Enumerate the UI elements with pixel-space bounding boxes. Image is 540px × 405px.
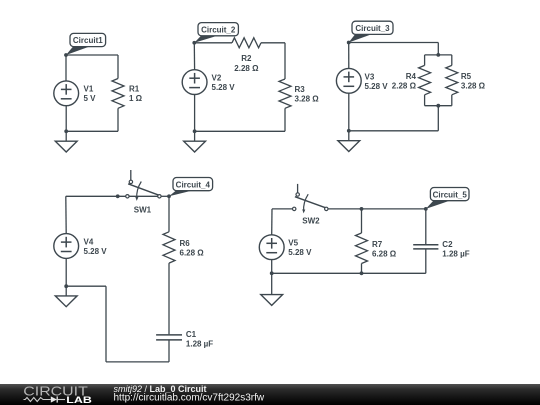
wire R1 top lead <box>117 55 119 79</box>
node N4 (right of SW1, circuit 4) <box>169 190 194 196</box>
resistor R3 <box>279 79 291 108</box>
capacitor C2 <box>413 244 438 246</box>
node dot bottom circuit 2 <box>193 129 197 133</box>
wire bottom of circuit 3 <box>349 130 439 132</box>
svg-text:R6: R6 <box>180 239 191 248</box>
wire R6 top lead <box>168 196 170 232</box>
voltage source V3 <box>336 68 361 93</box>
resistor R1 <box>112 79 124 109</box>
wire C1 bottom lead <box>168 341 170 362</box>
wire C2 top lead <box>425 209 427 244</box>
wire R3 top lead <box>284 43 286 79</box>
node N2 (top of circuit 2) <box>194 35 219 43</box>
switch SW2 contacts <box>293 207 296 210</box>
node dot R7 bottom <box>360 271 364 275</box>
wire R3 bottom lead <box>284 108 286 131</box>
node dot C2 top <box>424 207 428 211</box>
ground circuit 4 <box>65 286 67 296</box>
svg-text:Circuit_5: Circuit_5 <box>433 190 468 199</box>
node N5 (top-right of circuit 5) <box>426 200 452 209</box>
wire top-left of circuit 4 <box>66 195 160 197</box>
svg-text:SW2: SW2 <box>302 216 320 225</box>
node dot top-left circuit 1 <box>64 53 68 57</box>
svg-text:R7: R7 <box>372 240 383 249</box>
wire down to parallel pair <box>437 43 439 55</box>
node dot R7 top <box>360 207 364 211</box>
svg-text:6.28 Ω: 6.28 Ω <box>372 249 397 258</box>
wire bottom of circuit 2 <box>195 130 285 132</box>
wire V1 bottom lead <box>65 106 67 132</box>
svg-text:R2: R2 <box>241 54 252 63</box>
junction dot left of SW1 <box>116 194 120 198</box>
wire parallel bottom rail <box>425 105 452 107</box>
svg-text:6.28 Ω: 6.28 Ω <box>180 248 205 257</box>
wire V5 bottom lead <box>271 260 273 274</box>
node dot parallel top junction <box>436 53 440 57</box>
wire left riser circuit 4 <box>105 286 107 362</box>
wire bottom of circuit 4 <box>106 361 169 363</box>
wire parallel top rail <box>425 54 452 56</box>
wire down from parallel pair <box>437 106 439 131</box>
wire R2 to right corner <box>261 42 285 44</box>
wire R4 top lead <box>424 55 426 66</box>
wire V3 bottom lead <box>348 93 350 131</box>
ground circuit 3 <box>348 131 350 141</box>
ground circuit 2 <box>194 131 196 141</box>
switch SW2 lever <box>295 197 326 208</box>
switch SW2 actuation arc <box>304 194 309 211</box>
svg-text:2.28 Ω: 2.28 Ω <box>234 64 259 73</box>
switch SW1 top throw stub <box>130 170 132 180</box>
resistor R6 <box>163 232 175 263</box>
wire node to R2 <box>194 42 232 44</box>
switch SW1 lever <box>128 184 159 195</box>
wire SW1 to node <box>159 195 169 197</box>
wire R7 top lead <box>361 209 363 233</box>
node dot V4 bottom <box>64 284 68 288</box>
svg-text:R4: R4 <box>406 72 417 81</box>
node N1 (top of circuit 1) <box>66 46 91 55</box>
wire top of circuit 1 <box>66 54 118 56</box>
wire top of circuit 3 <box>349 42 439 44</box>
switch SW2 top throw stub <box>297 184 299 193</box>
svg-text:Circuit_3: Circuit_3 <box>355 24 390 33</box>
resistor R7 <box>356 233 368 264</box>
svg-text:1.28 µF: 1.28 µF <box>442 250 469 259</box>
svg-text:3.28 Ω: 3.28 Ω <box>295 95 320 104</box>
svg-text:5.28 V: 5.28 V <box>365 82 389 91</box>
svg-text:SW1: SW1 <box>134 205 152 214</box>
node dot top-left circuit 2 <box>192 41 196 45</box>
switch SW1 contacts <box>126 195 129 198</box>
node dot V5 bottom <box>270 271 274 275</box>
svg-text:V5: V5 <box>288 239 298 248</box>
svg-text:5 V: 5 V <box>84 94 97 103</box>
svg-text:1 Ω: 1 Ω <box>129 94 143 103</box>
svg-text:C2: C2 <box>442 240 453 249</box>
wire R5 top lead <box>451 55 453 66</box>
wire R4 bottom lead <box>424 95 426 106</box>
wire V4 bottom lead <box>65 258 67 286</box>
svg-text:Circuit_2: Circuit_2 <box>201 25 236 34</box>
wire C2 bottom lead <box>425 250 427 274</box>
wire V5 top lead <box>271 209 273 235</box>
wire R7 bottom lead <box>361 264 363 274</box>
svg-text:3.28 Ω: 3.28 Ω <box>461 81 486 90</box>
resistor R2 <box>232 38 261 48</box>
node N3 (top of circuit 3) <box>349 34 373 43</box>
voltage source V1 <box>54 81 79 106</box>
wire R1 bottom lead <box>117 108 119 131</box>
ground circuit 5 <box>271 273 273 294</box>
node dot right of SW1 <box>167 194 171 198</box>
svg-text:R3: R3 <box>295 85 306 94</box>
voltage source V5 <box>259 235 284 260</box>
wire bottom of circuit 5 <box>272 272 426 274</box>
wire V2 bottom lead <box>194 95 196 132</box>
svg-text:1.28 µF: 1.28 µF <box>186 340 213 349</box>
wire bottom of circuit 1 <box>66 130 118 132</box>
resistor R5 <box>446 65 458 94</box>
svg-text:C1: C1 <box>186 330 197 339</box>
logo resistor-diode squiggle <box>24 398 51 402</box>
voltage source V4 <box>54 234 79 259</box>
capacitor C1 <box>156 334 182 336</box>
node dot top-left circuit 3 <box>347 41 351 45</box>
wire SW2 to R7/C2 <box>326 208 426 210</box>
voltage source V2 <box>182 70 207 95</box>
svg-text:R5: R5 <box>461 72 472 81</box>
node dot parallel bottom junction <box>436 104 440 108</box>
svg-text:LAB: LAB <box>66 395 92 405</box>
wire R6 to C1 <box>168 263 170 334</box>
svg-text:R1: R1 <box>129 85 140 94</box>
svg-text:http://circuitlab.com/cv7ft292: http://circuitlab.com/cv7ft292s3rfw <box>114 392 265 403</box>
wire V1 top lead <box>65 55 67 81</box>
wire V4 top lead <box>65 196 67 233</box>
wire V2 top lead <box>193 43 195 70</box>
ground circuit 1 <box>65 131 67 141</box>
svg-text:2.28 Ω: 2.28 Ω <box>392 81 417 90</box>
svg-text:5.28 V: 5.28 V <box>212 83 236 92</box>
wire top-left to SW2 <box>272 208 294 210</box>
svg-text:Circuit_4: Circuit_4 <box>176 180 211 189</box>
svg-text:5.28 V: 5.28 V <box>288 248 312 257</box>
svg-text:V1: V1 <box>84 85 94 94</box>
wire V3 top lead <box>348 43 350 69</box>
svg-text:V3: V3 <box>365 72 375 81</box>
svg-text:Circuit1: Circuit1 <box>73 36 103 45</box>
wire to V4 bottom node <box>66 285 106 287</box>
wire R5 bottom lead <box>451 95 453 106</box>
resistor R4 <box>419 65 431 94</box>
svg-text:V2: V2 <box>212 74 222 83</box>
svg-text:5.28 V: 5.28 V <box>84 247 108 256</box>
node dot bottom circuit 3 <box>347 129 351 133</box>
switch SW1 actuation arc <box>137 182 142 199</box>
node dot bottom circuit 1 <box>64 129 68 133</box>
svg-text:V4: V4 <box>84 238 94 247</box>
